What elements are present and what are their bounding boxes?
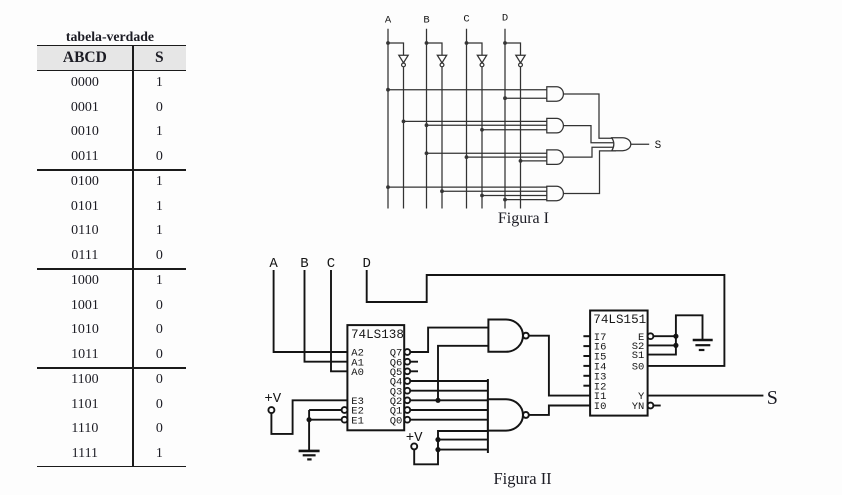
wire: input A vertical bbox=[387, 29, 389, 209]
svg-text:D: D bbox=[502, 13, 508, 25]
U2 pin I5 label and stub bbox=[583, 352, 606, 364]
junction: E1/E2 ground net bbox=[307, 417, 312, 422]
U1 pin E1 label bbox=[351, 415, 364, 427]
svg-text:A0: A0 bbox=[351, 367, 364, 379]
wire: ground net vertical bbox=[308, 410, 310, 451]
table line group1 bbox=[37, 169, 186, 171]
svg-text:I0: I0 bbox=[594, 401, 607, 413]
node D label (Figura I) bbox=[502, 13, 508, 25]
wire: U1 Q7 to G6 input 1 bbox=[410, 328, 488, 352]
U1 pin Q4 bubble bbox=[404, 378, 410, 384]
inverter U3 (NOT C) with junction bbox=[465, 41, 487, 67]
U2 pin I6 label and stub bbox=[583, 342, 606, 354]
svg-text:A: A bbox=[385, 14, 392, 26]
svg-text:A: A bbox=[269, 256, 278, 272]
table line top bbox=[37, 45, 186, 47]
AND gate G3 bbox=[547, 150, 564, 165]
wire: G2 output to OR bbox=[563, 126, 616, 143]
NAND gate G6 body bbox=[488, 320, 523, 352]
U2 pin I1 label bbox=[594, 391, 607, 403]
inverter U4 (NOT D) with junction bbox=[503, 41, 525, 67]
caption Figura II bbox=[493, 469, 551, 488]
wire: U1 Q5 stub bbox=[410, 370, 418, 372]
table line under header bbox=[37, 70, 186, 72]
svg-text:74LS151: 74LS151 bbox=[593, 313, 646, 327]
U2 pin S0 label bbox=[632, 362, 645, 374]
U2 pin I0 label bbox=[594, 401, 607, 413]
wire: +V bottom riser bbox=[414, 431, 488, 464]
wire: A to U1 pin A2 bbox=[274, 270, 348, 352]
wire: input C vertical bbox=[466, 29, 468, 209]
svg-text:B: B bbox=[300, 256, 308, 272]
table line group3 bbox=[37, 367, 186, 369]
node D label (Figura II) bbox=[362, 256, 370, 272]
U1 pin Q4 label bbox=[390, 377, 403, 389]
wire: D to G4 input 4 bbox=[503, 198, 547, 202]
AND gate G4 bbox=[547, 186, 564, 201]
wire: input B vertical bbox=[426, 29, 428, 209]
table line bottom bbox=[37, 466, 186, 468]
U1 pin A1 label bbox=[351, 357, 364, 369]
U1 pin E3 label bbox=[351, 396, 364, 408]
truth table header background bbox=[37, 46, 186, 71]
svg-text:B: B bbox=[423, 14, 429, 26]
node A label (Figura I) bbox=[385, 14, 392, 26]
wire: D to U2 pin S0 (long top run) bbox=[367, 270, 725, 366]
NAND gate G7 bubble bbox=[523, 412, 529, 418]
wire: U1 pin E1 to ground net bbox=[309, 419, 342, 421]
wire: U2 Y output to S bbox=[648, 395, 764, 397]
junction: Q2 branch bbox=[435, 398, 440, 403]
U1 label 74LS138 bbox=[351, 328, 404, 342]
wire: /D to G3 input 3 bbox=[519, 159, 547, 163]
svg-text:C: C bbox=[327, 256, 335, 272]
U2 pin E label bbox=[638, 332, 644, 344]
U2 pin S1 label bbox=[632, 350, 645, 362]
svg-text:D: D bbox=[362, 256, 370, 272]
node S label (Figura II) bbox=[767, 387, 778, 409]
wire: +V to U1 pin E3 bbox=[271, 400, 347, 434]
wire: inverted A vertical bbox=[403, 67, 405, 209]
svg-text:YN: YN bbox=[632, 401, 645, 413]
NAND gate G7 body bbox=[488, 399, 523, 430]
wire: B to U1 pin A1 bbox=[305, 270, 348, 362]
U1 pin E2 bubble bbox=[342, 407, 348, 413]
svg-text:Q0: Q0 bbox=[390, 415, 403, 427]
inverter U1 (NOT A) with junction bbox=[386, 41, 408, 67]
NAND gate G6 bubble bbox=[523, 333, 529, 339]
U1 pin E2 label bbox=[351, 406, 364, 418]
wire: U1 pin E2 to ground net bbox=[309, 409, 342, 411]
wire: U2 S1 to ground net riser bbox=[648, 315, 703, 354]
wire: U1 Q4 to G7 bbox=[410, 380, 488, 382]
wire: U2 S2 to ground net bbox=[648, 344, 676, 346]
node S label (Figura I) bbox=[655, 140, 662, 152]
wire: C to G3 input 2 bbox=[465, 155, 547, 159]
svg-text:S0: S0 bbox=[632, 362, 645, 374]
table data rows bbox=[37, 71, 186, 96]
U1 pin A2 label bbox=[351, 348, 364, 360]
wire: G4 output to OR bbox=[563, 151, 616, 194]
wire: B to G2 input 2 bbox=[425, 123, 547, 127]
svg-text:Figura I: Figura I bbox=[498, 210, 549, 227]
U2 pin I2 label and stub bbox=[583, 381, 606, 393]
U1 pin Q5 label bbox=[390, 367, 403, 379]
U1 pin Q6 bubble bbox=[404, 359, 410, 365]
U2 pin I3 label and stub bbox=[583, 371, 606, 383]
U2 pin Y label bbox=[638, 391, 645, 403]
U1 pin Q7 bubble bbox=[404, 349, 410, 355]
wire: U1 Q1 to G7 bbox=[410, 409, 488, 411]
junction: +V to G7 wire a bbox=[435, 437, 440, 442]
U1 pin Q5 bubble bbox=[404, 368, 410, 374]
wire: Q2 branch to G6 input 2 bbox=[438, 346, 488, 401]
wire: inverted D vertical bbox=[520, 67, 522, 209]
U2 pin S2 label bbox=[632, 341, 645, 353]
svg-text:E1: E1 bbox=[351, 415, 364, 427]
node B label (Figura I) bbox=[423, 14, 429, 26]
wire: D to G1 input 2 bbox=[503, 96, 547, 100]
wire: A to G1 input 1 bbox=[386, 88, 547, 92]
power +V source (bottom) bbox=[406, 430, 423, 449]
wire: /A to G2 input 1 bbox=[402, 120, 547, 124]
wire: U1 Q3 to G7 bbox=[410, 390, 488, 392]
wire: inverted C vertical bbox=[481, 67, 483, 209]
multiplexer U2 74LS151 body bbox=[590, 311, 648, 416]
svg-text:S: S bbox=[655, 140, 662, 152]
wire: OR output S bbox=[631, 143, 649, 145]
wire: input D vertical bbox=[504, 29, 506, 209]
junction: +V to G7 wire b bbox=[435, 447, 440, 452]
wire: +V to G7 input b bbox=[438, 439, 488, 441]
U2 label 74LS151 bbox=[593, 313, 646, 327]
wire: U1 Q6 stub bbox=[410, 361, 418, 363]
node A label (Figura II) bbox=[269, 256, 278, 272]
truth table header text bbox=[37, 46, 186, 71]
U1 pin Q1 label bbox=[390, 406, 403, 418]
U1 pin Q2 bubble bbox=[404, 397, 410, 403]
node B label (Figura II) bbox=[300, 256, 308, 272]
wire: +V to G7 input c bbox=[438, 449, 488, 451]
table vertical divider bbox=[132, 45, 134, 468]
node C label (Figura II) bbox=[327, 256, 335, 272]
wire: U1 Q2 to G7 bbox=[410, 399, 488, 401]
U1 pin Q0 bubble bbox=[404, 417, 410, 423]
U1 pin A0 label bbox=[351, 367, 364, 379]
U1 pin Q6 label bbox=[390, 357, 403, 369]
truth table title bbox=[36, 29, 185, 45]
wire: G3 output to OR bbox=[563, 147, 616, 157]
wire: G6 output to U2 pin I1 bbox=[529, 336, 590, 396]
wire: G1 output to OR bbox=[563, 94, 616, 138]
U2 pin I7 label and stub bbox=[583, 332, 606, 344]
ground symbol (left) bbox=[299, 451, 320, 460]
wire: U2 YN stub bbox=[653, 405, 660, 407]
U1 pin Q3 bubble bbox=[404, 388, 410, 394]
wire: /C to G2 input 3 bbox=[480, 128, 547, 132]
SVG_FIG1_END bbox=[264, 256, 778, 488]
wire: U1 Q0 to G7 bbox=[410, 419, 488, 421]
node C label (Figura I) bbox=[463, 14, 469, 26]
U1 pin Q7 label bbox=[390, 348, 403, 360]
svg-text:Figura II: Figura II bbox=[493, 469, 551, 488]
wire: /C to G4 input 3 bbox=[480, 194, 547, 198]
U1 pin E1 bubble bbox=[342, 417, 348, 423]
wire: C to U1 pin A0 bbox=[331, 270, 347, 371]
OR gate G5 bbox=[612, 138, 631, 151]
NAND gate G7 input bar bbox=[487, 379, 489, 453]
U1 pin Q0 label bbox=[390, 415, 403, 427]
wire: inverted B vertical bbox=[441, 67, 443, 209]
decoder U1 74LS138 body bbox=[347, 325, 404, 430]
ground symbol (right) bbox=[693, 340, 713, 350]
wire: A to G4 input 1 bbox=[386, 185, 547, 189]
wire: /B to G4 input 2 bbox=[440, 189, 547, 193]
svg-text:74LS138: 74LS138 bbox=[351, 328, 404, 342]
svg-text:S: S bbox=[767, 387, 778, 409]
U1 pin Q3 label bbox=[390, 386, 403, 398]
table line group2 bbox=[37, 268, 186, 270]
svg-text:C: C bbox=[463, 14, 469, 26]
wire: U2 E to ground net bbox=[653, 335, 676, 337]
U2 pin YN label bbox=[632, 401, 645, 413]
junction: S2 on ground net bbox=[673, 343, 678, 348]
U2 pin I4 label and stub bbox=[583, 362, 606, 374]
U1 pin Q1 bubble bbox=[404, 407, 410, 413]
caption Figura I bbox=[498, 210, 549, 227]
junction: E on ground net bbox=[673, 334, 678, 339]
inverter U2 (NOT B) with junction bbox=[425, 41, 447, 67]
U2 pin YN bubble bbox=[648, 403, 654, 409]
wire: B to G3 input 1 bbox=[425, 151, 547, 155]
svg-text:+V: +V bbox=[264, 391, 281, 407]
U2 pin E bubble bbox=[648, 333, 654, 339]
wire: G7 output to U2 pin I0 bbox=[529, 406, 590, 415]
power +V source (left) bbox=[264, 391, 281, 413]
AND gate G2 bbox=[547, 118, 564, 133]
U1 pin Q2 label bbox=[390, 396, 403, 408]
svg-text:S1: S1 bbox=[632, 350, 645, 362]
AND gate G1 bbox=[547, 87, 564, 102]
